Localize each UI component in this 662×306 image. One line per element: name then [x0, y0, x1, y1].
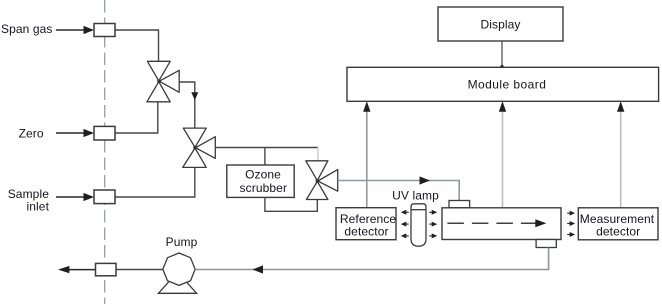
svg-text:Ozone: Ozone — [245, 168, 281, 182]
signal wire cell to module board — [502, 103, 504, 208]
wire pump to exhaust port — [116, 269, 163, 271]
arrows UV to cell (right) — [429, 210, 437, 239]
svg-text:inlet: inlet — [26, 200, 49, 214]
svg-text:Module board: Module board — [468, 78, 547, 92]
valve V3 (3-way) — [306, 161, 338, 200]
wire valve V1 to valve V2 with down arrow — [179, 82, 195, 128]
svg-text:Span gas: Span gas — [1, 22, 53, 36]
box display — [438, 7, 563, 41]
port exhaust — [96, 263, 117, 275]
arrow zero inlet — [56, 129, 94, 137]
pump body — [163, 253, 195, 285]
arrows cell to measurement detector — [567, 211, 575, 237]
return pipe cell outlet to pump with left arrow — [196, 248, 549, 270]
arrow sample inlet — [56, 193, 94, 201]
UV lamp tube — [411, 204, 426, 246]
signal wire measurement detector to module board — [620, 103, 622, 208]
box measurement detector — [578, 208, 658, 240]
arrow span gas inlet — [56, 26, 94, 34]
valve V1 (3-way) — [147, 61, 179, 102]
valve V2 (3-way) — [183, 128, 216, 167]
svg-text:detector: detector — [596, 225, 640, 239]
pump stand triangle — [158, 272, 196, 293]
port zero — [94, 126, 115, 140]
svg-text:Display: Display — [480, 18, 520, 32]
wire span port to valve V1 top — [115, 30, 159, 61]
wire zero port to valve V1 bottom — [115, 102, 158, 133]
cell outlet port — [536, 240, 556, 248]
manifold dashed line — [104, 0, 106, 304]
arrow exhaust out — [58, 266, 96, 273]
arrows UV to reference detector (left) — [401, 210, 409, 239]
port sample inlet — [94, 190, 115, 204]
wire drop into valve V3 top — [317, 147, 319, 161]
box module board — [347, 67, 659, 101]
svg-text:scrubber: scrubber — [240, 181, 288, 195]
dashed beam arrow in cell — [447, 222, 537, 224]
svg-text:detector: detector — [344, 225, 388, 239]
svg-text:Zero: Zero — [19, 126, 44, 140]
wire tee to ozone scrubber top — [264, 148, 266, 166]
port span gas — [94, 24, 115, 37]
measurement cell — [442, 208, 561, 240]
wire sample port to valve V2 bottom — [115, 167, 195, 197]
box ozone scrubber — [227, 165, 294, 197]
wire scrubber bottom to valve V3 bottom — [265, 197, 317, 211]
wire display to module board — [501, 41, 503, 67]
signal wire reference detector to module board — [366, 103, 368, 208]
wire valve V3 to cell inlet with right arrow — [338, 181, 460, 201]
svg-text:Pump: Pump — [166, 235, 198, 249]
wire valve V2 output — [215, 147, 318, 149]
box reference detector — [336, 208, 396, 240]
cell inlet port — [449, 201, 470, 208]
svg-text:UV lamp: UV lamp — [392, 189, 439, 203]
